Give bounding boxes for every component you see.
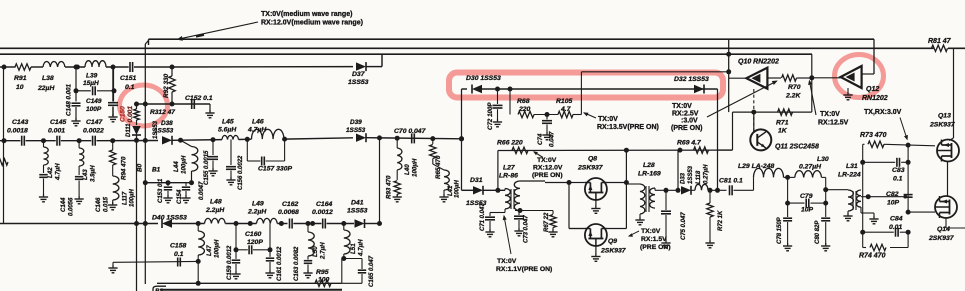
svg-text:0.0012: 0.0012 [312, 209, 333, 216]
svg-text:(PRE ON): (PRE ON) [671, 125, 703, 132]
inductor L50 [308, 224, 314, 257]
capacitor C165 [358, 259, 366, 284]
svg-text:C78 150P: C78 150P [777, 216, 783, 244]
svg-text:R68: R68 [517, 98, 530, 105]
ground C72 [493, 119, 502, 127]
wire L31 tap out [861, 196, 905, 198]
svg-text:15µH: 15µH [83, 80, 99, 87]
svg-text:(PRE ON): (PRE ON) [532, 172, 563, 179]
op-amp Q12 [841, 66, 862, 88]
wire R68 left leg [509, 89, 511, 115]
annotation arrow Q9 [628, 231, 639, 237]
wire C84 row [863, 231, 908, 233]
node L29-L30 [785, 175, 790, 180]
label C163 0.0082 (rotated) [294, 246, 300, 281]
svg-text:L28: L28 [643, 162, 655, 169]
inductor L41 [433, 159, 449, 197]
wire row67 end riser [381, 54, 383, 66]
svg-text:RX:12.0V: RX:12.0V [533, 165, 563, 172]
wire C72 drop [497, 89, 499, 104]
capacitor C151 [130, 62, 133, 72]
ground C74 [542, 132, 551, 140]
wire V1 top bend [145, 41, 148, 45]
node C160 left [234, 247, 239, 252]
capacitor C150 [108, 103, 118, 106]
resistor R66 [512, 147, 528, 153]
label L38 22µH [37, 75, 55, 92]
ground L31 left [843, 211, 852, 221]
wire L51-C165 [342, 258, 362, 260]
capacitor C161 [266, 258, 274, 261]
wire L29-L30 [784, 176, 795, 178]
wire R74 row [863, 247, 908, 249]
label C158 0.1 [170, 243, 186, 259]
inductor L39 [85, 61, 106, 67]
capacitor C147 [93, 136, 96, 146]
wire Q11 base solid [753, 112, 755, 132]
svg-text:R105: R105 [556, 98, 572, 105]
node left edge row67 [2, 65, 7, 70]
wire Q9 gnd stub [595, 246, 597, 256]
wire C156 vert [230, 139, 232, 165]
diode D31 [473, 186, 483, 195]
wire rowF seg5 [293, 223, 321, 225]
capacitor C74 [542, 115, 552, 135]
node rowF c [279, 221, 284, 226]
label R93 470 (rotated) [386, 175, 393, 199]
svg-text:0.27µH: 0.27µH [704, 164, 710, 184]
resistor R93 [394, 170, 400, 196]
svg-text:D37: D37 [352, 71, 366, 78]
svg-text:RX:2.5V: RX:2.5V [672, 111, 699, 118]
capacitor C70 [412, 133, 415, 143]
transformer L31 secondary [857, 190, 861, 207]
wire L118-node [708, 189, 727, 191]
wire V3 [379, 138, 381, 224]
label R94 470 (rotated) [121, 156, 128, 180]
inductor L117 [113, 176, 119, 204]
svg-text:C150: C150 [120, 106, 127, 122]
svg-text:R93 470: R93 470 [386, 175, 393, 199]
svg-text:1SS53: 1SS53 [154, 128, 174, 135]
resistor R67 [550, 211, 556, 232]
node rowD L46r [282, 137, 287, 142]
wire rowF seg7 [365, 223, 380, 225]
node Q8 right node [624, 180, 629, 185]
svg-text:2.2K: 2.2K [785, 93, 801, 100]
svg-text:R91: R91 [14, 75, 27, 82]
node V8 gate [906, 210, 911, 215]
svg-text:L30: L30 [817, 156, 829, 163]
annotation arrow R70 junction [808, 80, 816, 115]
node V1 x row104 [143, 102, 148, 107]
label C71 0.047 (rotated) [480, 203, 486, 231]
label C164 0.0012 [312, 201, 333, 216]
label L42 4.7µH (rotated) [47, 163, 62, 181]
svg-text:100µH: 100µH [412, 158, 419, 177]
capacitor C75 [661, 211, 671, 214]
svg-text:R71: R71 [776, 120, 789, 127]
resistor partial left edge [0, 159, 8, 165]
inductor L44 [181, 140, 198, 183]
node C79 right [823, 201, 828, 206]
label C161 0.0012 (rotated) [277, 246, 283, 281]
svg-text:C148 0.001: C148 0.001 [66, 83, 73, 116]
capacitor C149 [93, 86, 96, 95]
svg-text:0.0022: 0.0022 [83, 128, 104, 135]
label L39 15µH [83, 73, 99, 88]
svg-text:C161 0.0012: C161 0.0012 [277, 246, 283, 281]
svg-text:120P: 120P [247, 239, 263, 246]
transistor Q14 [935, 196, 957, 218]
node rowD R65 [430, 136, 435, 141]
bus line A (top) [149, 38, 875, 40]
node R92 top [170, 65, 175, 70]
svg-text:10P: 10P [887, 200, 900, 207]
svg-text:C152 0.1: C152 0.1 [185, 95, 213, 102]
label C165 0.047 (rotated) [369, 255, 375, 287]
wire C75 drop [665, 190, 667, 210]
net label B1 [152, 167, 161, 174]
svg-text:D30 1SS53: D30 1SS53 [466, 75, 501, 82]
transformer L31 primary [848, 190, 853, 211]
svg-text:0.1: 0.1 [893, 176, 903, 183]
wire row67 seg5 [134, 66, 172, 68]
capacitor C155 [208, 157, 218, 160]
svg-text:D111: D111 [126, 123, 132, 137]
node rowD L40 [395, 136, 400, 141]
svg-text:R94 470: R94 470 [121, 156, 128, 180]
svg-text:1SS53: 1SS53 [348, 79, 369, 86]
inductor L30 [795, 171, 822, 178]
wire Q10 out [767, 77, 781, 79]
svg-text:100µH: 100µH [130, 189, 136, 207]
svg-text:C158: C158 [170, 243, 186, 250]
svg-text:0.0056: 0.0056 [69, 197, 75, 216]
svg-text:TX:0V(medium wave range): TX:0V(medium wave range) [261, 11, 352, 18]
annotation red circle highlight (C150) [120, 85, 168, 126]
label C82 10P [886, 191, 900, 207]
node B1 V1 [143, 180, 148, 185]
node rowD a [41, 138, 46, 143]
node C150 tap [111, 65, 116, 70]
ground C159 [231, 271, 240, 279]
label L117 100µH (rotated) [123, 189, 136, 207]
svg-text::3.0V: :3.0V [681, 118, 698, 125]
resistor R312 [134, 109, 140, 120]
diode D38 [162, 136, 172, 145]
wire V2 down [136, 135, 138, 291]
label 0.0047 (rotated) [199, 181, 205, 200]
svg-text:1SS53: 1SS53 [347, 208, 368, 215]
label D37 1SS53 [348, 71, 369, 86]
svg-text:TX:0V: TX:0V [820, 111, 840, 118]
capacitor C83 [897, 158, 900, 167]
label C160 120P [245, 231, 263, 246]
svg-text:C143: C143 [12, 119, 28, 126]
diode D39 [356, 133, 366, 142]
capacitor C145 [57, 136, 60, 146]
svg-text:C151: C151 [120, 75, 136, 82]
node rowF L47 [196, 221, 201, 226]
svg-text:C145: C145 [50, 119, 66, 126]
node rowD C155 [211, 137, 216, 142]
label D31 [470, 177, 483, 184]
resistor R81 [932, 45, 948, 51]
label L44 100µH (rotated) [173, 155, 188, 174]
transistor Q9 [585, 224, 607, 246]
ground C161 [265, 270, 274, 278]
svg-text:220: 220 [518, 106, 531, 113]
wire R68-R105 [534, 114, 558, 116]
svg-text:TX:0V: TX:0V [641, 228, 661, 235]
wire Q8 left stub [569, 182, 585, 184]
wire C160 bridge [236, 249, 270, 251]
label C150 0.001 (rotated) [120, 106, 135, 123]
node rowD b [77, 138, 82, 143]
svg-text:C71 0.047: C71 0.047 [480, 203, 486, 231]
svg-text:TX,RX:3.0V: TX,RX:3.0V [864, 109, 902, 116]
svg-text:L39: L39 [86, 73, 98, 80]
wire R73 out [884, 144, 935, 146]
node C79 left [785, 201, 790, 206]
svg-text:C153 0.1: C153 0.1 [158, 178, 164, 203]
node D31 out [495, 188, 500, 193]
node rowD V3 [377, 135, 382, 140]
label R105 4.7 [556, 98, 572, 113]
svg-text:TX:0V: TX:0V [598, 116, 618, 123]
wire R312-D111 [136, 120, 138, 125]
node V2 rowD [134, 138, 139, 143]
wire C144 gnd [43, 179, 45, 197]
op-amp Q10 [746, 68, 767, 89]
node rowD left [2, 138, 7, 143]
diode D30 [472, 85, 482, 94]
svg-text:1K: 1K [778, 128, 788, 135]
svg-text:C75 0.047: C75 0.047 [681, 212, 687, 240]
node C83 left [860, 160, 865, 165]
svg-text:C163 0.0082: C163 0.0082 [294, 246, 300, 281]
label C83 0.1 [892, 167, 905, 183]
transformer L28 secondary [650, 188, 655, 208]
label L48 2.2µH [205, 199, 225, 215]
diode D33 [681, 186, 691, 195]
node R70 out [809, 75, 814, 80]
wire C148 gnd [75, 107, 77, 120]
node C149 right [112, 88, 117, 93]
transformer L28 primary [640, 184, 645, 214]
svg-text:C84: C84 [890, 216, 903, 223]
svg-text:4.7µH: 4.7µH [358, 239, 365, 257]
svg-text:C72 100P: C72 100P [487, 102, 494, 130]
svg-text:2.2µH: 2.2µH [205, 207, 225, 214]
capacitor C84 [896, 228, 899, 237]
annotation red circle highlight (Q12) [835, 55, 884, 98]
wire row67 seg1 [0, 66, 16, 68]
diode D111 [132, 126, 141, 135]
capacitor C160 [249, 245, 252, 254]
svg-text:C83: C83 [892, 167, 905, 174]
wire W1 segB [482, 88, 718, 90]
svg-text:TX:0V: TX:0V [672, 103, 692, 110]
label D39 1SS53 [346, 119, 366, 134]
label R72 1K (rotated) [718, 210, 724, 231]
resistor R72 body [707, 203, 713, 242]
svg-text:0.01: 0.01 [889, 224, 902, 231]
svg-text:L46: L46 [252, 119, 264, 126]
capacitor C143 [22, 136, 25, 146]
ground L117 [108, 202, 117, 210]
node C149 left [74, 88, 79, 93]
ground Q12 [843, 92, 852, 100]
ground C155 [208, 168, 217, 176]
wire Q8 gnd stub [595, 200, 597, 208]
label C159 0.0012 (rotated) [227, 245, 233, 280]
annotation red rectangle highlight (D30-D32 net) [449, 73, 723, 98]
svg-text:D41: D41 [351, 200, 364, 207]
svg-text:2SK937: 2SK937 [928, 235, 955, 242]
svg-text:L27: L27 [503, 165, 516, 172]
label L50 2.7µH (rotated) [312, 242, 327, 260]
svg-text:L38: L38 [42, 75, 54, 82]
svg-text:Q12: Q12 [866, 86, 879, 93]
node R71 Q11base [751, 110, 756, 115]
svg-text:0.1: 0.1 [174, 251, 184, 258]
node L28 D33 node [664, 188, 669, 193]
node V2 rowF [134, 221, 139, 226]
node C84 right [906, 230, 911, 235]
label R67 22 (rotated) [544, 212, 550, 232]
wire rowE left riser [497, 151, 499, 191]
label R74 470 [859, 253, 886, 260]
annotation arrow to bus A [177, 22, 259, 41]
capacitor C152 [192, 99, 195, 109]
label C154 (rotated) [177, 189, 183, 204]
wire L30 end bend [822, 177, 826, 203]
svg-text:0.1: 0.1 [125, 84, 135, 91]
label D38 1SS53 [154, 120, 174, 135]
svg-text:Q11 2SC2458: Q11 2SC2458 [775, 144, 819, 151]
label C80 82P (rotated) [815, 220, 821, 244]
node R69-L28 bottom [676, 188, 681, 193]
wire C149-C150 link [113, 67, 114, 102]
diode D40 [162, 219, 172, 228]
svg-text:C159 0.0012: C159 0.0012 [227, 245, 233, 280]
wire V2 net [136, 104, 138, 109]
capacitor C79 [806, 199, 809, 208]
wire R69 to L28 vert [677, 150, 679, 190]
wire rowF seg3 [225, 223, 256, 225]
wire C75 gnd [665, 215, 667, 242]
node row67 a [75, 65, 80, 70]
label R65 470 (rotated) [435, 155, 442, 179]
ground C153 [163, 195, 172, 203]
ground C163 [303, 270, 312, 278]
svg-text:D39: D39 [350, 119, 362, 126]
wire rowF seg6 [327, 223, 354, 225]
node C74 top [545, 112, 550, 117]
wire C153 drop [167, 183, 169, 186]
ground R67 [548, 229, 557, 237]
svg-text:1SS53: 1SS53 [688, 165, 694, 184]
wire Q8Q9 left vert [568, 181, 570, 229]
svg-text:L29 LA-248: L29 LA-248 [738, 163, 774, 170]
wire Q9 right stub [569, 228, 626, 230]
wire C153 gnd [167, 191, 169, 197]
wire rowE [498, 149, 718, 151]
wire C79 row [788, 202, 826, 204]
node rowD d [245, 137, 250, 142]
svg-text:100µH: 100µH [455, 180, 461, 198]
svg-text:C160: C160 [245, 231, 261, 238]
wire C156 down [230, 171, 232, 180]
node rowF V3 [377, 221, 382, 226]
svg-text:C149: C149 [86, 98, 102, 105]
svg-text:0.047: 0.047 [549, 131, 556, 147]
wire rowD seg5 [172, 139, 222, 142]
node B1 L44 [189, 180, 194, 185]
wire C83 row [863, 161, 908, 163]
annotation TX:0V RX:1.5V [640, 228, 671, 251]
wire Q8 right stub [607, 182, 627, 184]
wire row104 [137, 103, 211, 105]
label L27 LR-86 [499, 165, 518, 180]
resistor R70 [782, 75, 797, 81]
label D33 1SS53 (rotated) [681, 165, 695, 184]
resistor R71 [778, 109, 793, 115]
svg-text:L44: L44 [173, 161, 180, 172]
ground L28 [635, 214, 644, 225]
wire rowG right riser [341, 259, 343, 284]
wire C148 vert [75, 68, 77, 101]
node R92 bottom [170, 102, 175, 107]
svg-text:100µH: 100µH [214, 239, 221, 258]
capacitor C81 [730, 185, 733, 195]
svg-text:LR-86: LR-86 [499, 173, 518, 180]
label C143 0.0018 [7, 119, 28, 135]
wire Q12 gnd stub [847, 88, 849, 94]
label C151 0.1 [120, 75, 136, 91]
svg-text:10P: 10P [801, 207, 814, 214]
node L31 tap [866, 194, 871, 199]
label C152 0.1 [185, 95, 213, 102]
wire C155 vert [212, 140, 214, 155]
capacitor C162 [290, 219, 293, 229]
svg-text:C155 0.0015: C155 0.0015 [204, 150, 210, 185]
label C144 0.0056 (rotated) [61, 197, 75, 216]
svg-text:L117: L117 [123, 191, 129, 205]
wire C81 out [734, 177, 754, 190]
annotation TX:0V RX:12.0V PRE ON [532, 157, 563, 179]
capacitor C158 [178, 258, 181, 267]
wire W1 segA [462, 88, 468, 90]
label R95 100 [316, 269, 330, 284]
label C156 0.0022 (rotated) [238, 155, 244, 190]
svg-text:C165 0.047: C165 0.047 [369, 255, 375, 287]
svg-text:R72 1K: R72 1K [718, 210, 724, 231]
capacitor C163 [304, 261, 312, 264]
svg-text:Q13: Q13 [938, 113, 951, 120]
svg-text:B0: B0 [137, 163, 144, 172]
wire L47 to rowG [197, 261, 199, 283]
wire Q14 source [946, 218, 965, 228]
label R91 10 [14, 75, 27, 91]
node rowD V4 [459, 136, 464, 141]
resistor R69 [694, 147, 709, 153]
svg-text:RX:12.5V: RX:12.5V [818, 120, 849, 127]
wire Q11 base vert [753, 89, 755, 131]
wire C157 left leg [246, 139, 248, 161]
